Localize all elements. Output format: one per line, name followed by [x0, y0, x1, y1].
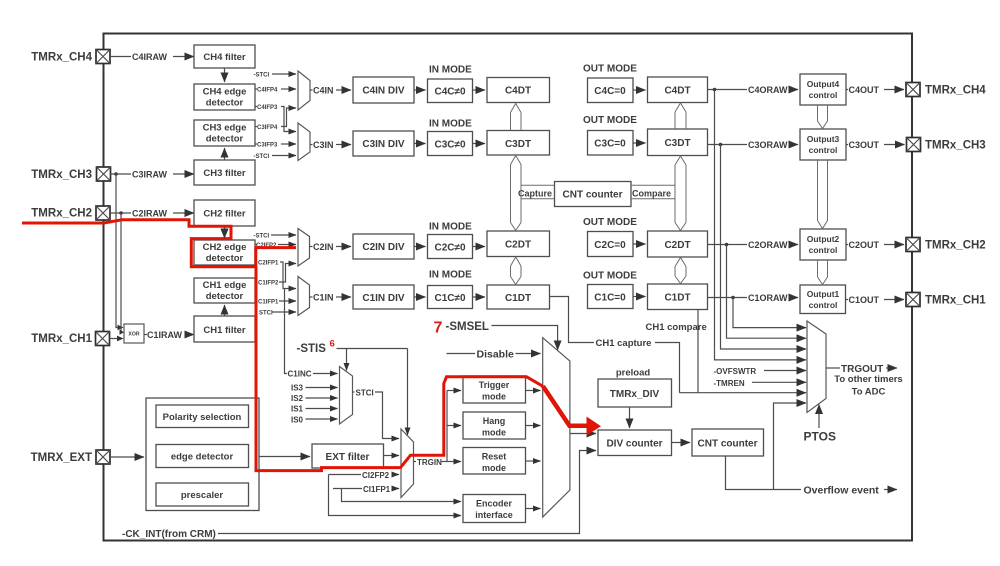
box CH4 edge detector: [194, 84, 255, 110]
box C4C=0: [588, 78, 634, 103]
svg-text:mode: mode: [482, 392, 506, 402]
junction C3ORAW: [719, 143, 723, 147]
svg-text:IN MODE: IN MODE: [429, 222, 472, 233]
wire C1IN to divider: [336, 296, 351, 298]
wire STIS: [337, 348, 408, 350]
wire C2C to C2DT: [473, 246, 486, 248]
svg-text:control: control: [809, 300, 838, 310]
pad TMRx_CH2 right: [906, 238, 920, 252]
junction CH2: [119, 211, 123, 215]
svg-text:control: control: [809, 145, 838, 155]
wire Trigger mode out: [526, 390, 541, 392]
svg-text:Overflow event: Overflow event: [804, 485, 880, 497]
svg-text:C1C=0: C1C=0: [594, 293, 626, 304]
wire C3ORAW: [708, 144, 748, 146]
wire Disable to mode mux: [516, 353, 541, 355]
wire C1ORAW: [708, 297, 748, 299]
svg-text:-STIS: -STIS: [297, 343, 327, 355]
svg-text:C1INC: C1INC: [288, 370, 312, 379]
wire C3OUT: [846, 144, 848, 146]
wire CI2FP2 to encoder: [329, 475, 462, 516]
svg-text:Compare: Compare: [632, 189, 671, 199]
mux mode select: [543, 338, 570, 517]
svg-text:To ADC: To ADC: [852, 387, 886, 398]
wire CK_INT: [218, 451, 596, 534]
mux PTOS trigger output: [807, 321, 826, 413]
box Trigger mode: [463, 376, 526, 403]
svg-text:C2ORAW: C2ORAW: [748, 240, 788, 250]
svg-text:C1IFP1: C1IFP1: [258, 300, 279, 306]
mux C4 input select: [298, 71, 310, 110]
box polarity container: [146, 398, 259, 511]
compare channel C2-C1: [675, 258, 686, 284]
wire C2OUT: [846, 244, 848, 246]
capture channel C3-C2: [511, 156, 522, 231]
output channel 3-2: [818, 160, 828, 229]
svg-text:CI2FP2: CI2FP2: [362, 471, 390, 480]
svg-text:IS3: IS3: [291, 384, 304, 393]
svg-text:STCI: STCI: [356, 389, 374, 398]
wire CI2FP2: [329, 474, 362, 476]
svg-text:detector: detector: [206, 291, 244, 302]
box C1C!=0: [428, 286, 473, 309]
wire CH3 to XOR: [116, 174, 118, 328]
svg-text:-TMREN: -TMREN: [714, 379, 745, 388]
wire C4IN DIV to C4C: [414, 89, 426, 91]
svg-text:C3IFP3: C3IFP3: [257, 143, 278, 149]
box C2DT in: [487, 231, 550, 257]
svg-text:7: 7: [434, 320, 443, 337]
wire C4IFP4 to C4 mux: [281, 88, 296, 90]
box CH3 filter: [194, 160, 255, 185]
svg-text:Encoder: Encoder: [476, 499, 513, 509]
svg-text:Output1: Output1: [807, 289, 840, 299]
wire CH1 compare: [697, 310, 699, 393]
riser C2ORAW to trigger mux: [727, 245, 807, 339]
svg-text:C2C≠0: C2C≠0: [434, 243, 465, 254]
wire C1IRAW: [144, 334, 147, 336]
svg-text:Disable: Disable: [477, 349, 515, 361]
box C2IN DIV: [353, 234, 414, 259]
svg-text:C4IRAW: C4IRAW: [132, 52, 168, 62]
wire C4ORAW: [708, 89, 748, 91]
svg-text:C3C=0: C3C=0: [594, 139, 626, 150]
svg-text:IS2: IS2: [291, 394, 304, 403]
svg-text:CH3 filter: CH3 filter: [203, 168, 246, 179]
wire TMRx_DIV to DIV counter: [629, 407, 631, 428]
box C3DT in: [487, 131, 550, 156]
wire CH1 pad to XOR: [110, 338, 118, 340]
svg-text:C3DT: C3DT: [505, 139, 531, 150]
svg-text:C1ORAW: C1ORAW: [748, 293, 788, 303]
svg-text:TMRx_CH1: TMRx_CH1: [31, 333, 92, 345]
svg-text:C2IFP1: C2IFP1: [258, 261, 279, 267]
wire C1C=0 to C1DT out: [633, 296, 646, 298]
svg-text:EXT filter: EXT filter: [326, 452, 370, 463]
label C3IFP3: [255, 143, 257, 145]
wire C2ORAW: [708, 244, 748, 246]
compare channel C4-C3: [675, 103, 686, 129]
riser C3ORAW to trigger mux: [721, 145, 807, 350]
box C1DT in: [487, 285, 550, 309]
svg-text:-STCI: -STCI: [254, 154, 270, 160]
svg-text:STCI: STCI: [259, 311, 273, 317]
wire C3IN to divider: [336, 144, 351, 146]
wire C3IRAW: [111, 173, 132, 175]
wire STCI to C1 mux: [272, 311, 296, 313]
wire C3IFP4 jog to C4 mux: [281, 108, 296, 127]
svg-text:CI1FP1: CI1FP1: [363, 485, 391, 494]
svg-text:TMRX_EXT: TMRX_EXT: [31, 452, 92, 464]
output channel 4-3: [818, 105, 828, 129]
svg-text:C4IFP4: C4IFP4: [257, 88, 278, 94]
wire TRGOUT: [826, 367, 840, 369]
riser C1ORAW to trigger mux: [733, 298, 806, 328]
wire C4IRAW: [110, 56, 131, 58]
wire C2IN DIV to C2C: [414, 246, 426, 248]
box C4C!=0: [428, 79, 473, 103]
svg-text:TMRx_CH1: TMRx_CH1: [925, 295, 986, 307]
box CH2 edge detector: [194, 240, 255, 265]
label C3IFP4: [255, 126, 257, 128]
junction C4ORAW: [713, 88, 717, 92]
wire CH1 capture: [550, 297, 595, 343]
wire overflow arrow: [884, 489, 897, 491]
capture channel C2-C1: [511, 257, 522, 285]
svg-text:IN MODE: IN MODE: [429, 119, 472, 130]
svg-text:C3IN: C3IN: [313, 140, 334, 150]
box CH3 edge detector: [194, 120, 255, 146]
wire Hang mode out: [526, 425, 541, 427]
red highlight input path: [22, 220, 296, 267]
svg-text:IN MODE: IN MODE: [429, 65, 472, 76]
svg-text:edge detector: edge detector: [171, 452, 234, 463]
compare channel C3-C2: [675, 156, 686, 231]
wire STCI to C4 mux: [272, 73, 296, 75]
wire STCI to C2 mux: [271, 234, 296, 236]
svg-text:OUT MODE: OUT MODE: [583, 271, 637, 282]
svg-text:IS0: IS0: [291, 416, 304, 425]
pad TMRx_CH4 left: [96, 50, 110, 64]
XOR box: [124, 324, 144, 343]
svg-text:C1DT: C1DT: [664, 293, 690, 304]
box Output3 control: [800, 129, 846, 160]
svg-text:TMRx_CH2: TMRx_CH2: [925, 240, 986, 252]
wire mode feeder vertical: [446, 391, 448, 462]
svg-text:detector: detector: [206, 98, 244, 109]
svg-text:C4DT: C4DT: [664, 86, 690, 97]
label TRGIN: [414, 461, 417, 463]
wire C3C=0 to C3DT out: [633, 142, 646, 144]
svg-text:OUT MODE: OUT MODE: [583, 217, 637, 228]
svg-text:Trigger: Trigger: [479, 380, 510, 390]
label C1IFP1: [255, 300, 257, 302]
pad TMRx_CH4 right: [906, 83, 920, 97]
wire CI1FP1: [333, 488, 362, 490]
svg-text:Polarity selection: Polarity selection: [163, 412, 242, 423]
compare duct: [631, 185, 675, 199]
wire C2IN to divider: [336, 246, 351, 248]
svg-text:C2DT: C2DT: [664, 240, 690, 251]
box CH1 edge detector: [194, 278, 255, 303]
wire capture compare to trigger mux: [680, 392, 807, 394]
wire CH1 filter to edge detector: [224, 305, 226, 316]
wire OVFSWTR to mux: [764, 370, 806, 372]
label C4IFP4: [255, 88, 257, 90]
svg-text:C4C≠0: C4C≠0: [434, 87, 465, 98]
svg-text:C4IFP3: C4IFP3: [257, 105, 278, 111]
svg-text:C2C=0: C2C=0: [594, 240, 626, 251]
wire C3C to C3DT: [473, 143, 486, 145]
svg-text:C2IN DIV: C2IN DIV: [362, 242, 405, 253]
svg-text:prescaler: prescaler: [181, 490, 224, 501]
wire EXT pad to polarity: [110, 456, 144, 458]
wire IS0: [306, 418, 338, 420]
wire CNT counter to overflow: [726, 456, 802, 490]
svg-text:To other timers: To other timers: [834, 374, 902, 385]
wire CH2 filter to edge detector: [224, 226, 226, 238]
svg-text:C1OUT: C1OUT: [849, 295, 880, 305]
box TMRx_DIV: [598, 379, 672, 407]
box prescaler ext: [156, 483, 249, 506]
red arrowhead: [587, 417, 602, 436]
mux C3 input select: [298, 123, 310, 161]
capture channel C4-C3: [511, 104, 522, 131]
svg-text:C4ORAW: C4ORAW: [748, 85, 788, 95]
svg-text:PTOS: PTOS: [804, 430, 836, 444]
svg-text:C3C≠0: C3C≠0: [434, 140, 465, 151]
svg-text:XOR: XOR: [128, 332, 139, 338]
svg-text:Output2: Output2: [807, 234, 840, 244]
wire STCI to C3 mux: [272, 155, 296, 157]
svg-text:Output3: Output3: [807, 134, 840, 144]
label C1IN: [310, 296, 313, 298]
wire CI1FP1 to encoder: [342, 489, 462, 502]
wire CH4 filter to edge detector: [224, 68, 226, 82]
svg-text:control: control: [809, 90, 838, 100]
svg-text:-STCI: -STCI: [254, 234, 270, 240]
wire C1IFP2 jog to C2 mux: [279, 264, 296, 283]
wire C1IN DIV to C1C: [414, 296, 426, 298]
wire C1OUT: [846, 299, 849, 301]
wire C4OUT: [846, 89, 848, 91]
svg-text:-SMSEL: -SMSEL: [446, 321, 489, 333]
wire TMREN to mux: [752, 381, 806, 383]
outer frame of timer block: [104, 34, 913, 541]
svg-text:C4DT: C4DT: [505, 86, 531, 97]
wire IS1: [306, 408, 338, 410]
wire polarity to EXT filter: [259, 456, 310, 458]
box C4IN DIV: [353, 77, 414, 103]
svg-text:IN MODE: IN MODE: [429, 270, 472, 281]
mux STCI select: [340, 367, 353, 425]
pad TMRx_CH2 left: [96, 206, 110, 220]
svg-text:CH1 capture: CH1 capture: [596, 338, 652, 349]
wire C4IFP3 jog to C3 mux: [281, 107, 296, 132]
svg-text:TMRx_CH3: TMRx_CH3: [31, 169, 92, 181]
box Output2 control: [800, 229, 846, 260]
box CH1 filter: [194, 316, 255, 342]
mux C1 input select: [298, 277, 310, 316]
wire C1C to C1DT: [473, 296, 486, 298]
label STCI out: [353, 391, 355, 393]
wire STIS to TRGIN mux: [407, 349, 409, 436]
box C2C=0: [588, 232, 634, 257]
svg-text:detector: detector: [206, 253, 244, 264]
svg-text:C2DT: C2DT: [505, 240, 531, 251]
wire C3IN DIV to C3C: [414, 143, 426, 145]
svg-text:DIV counter: DIV counter: [606, 439, 662, 450]
wire STIS branch to STCI mux: [346, 349, 348, 371]
svg-text:TRGIN: TRGIN: [417, 458, 442, 467]
wire CH2 to XOR: [120, 213, 122, 332]
box C1IN DIV: [353, 285, 414, 309]
label C2IFP1: [255, 261, 257, 263]
box C3C!=0: [428, 132, 473, 156]
svg-text:C1DT: C1DT: [505, 293, 531, 304]
svg-text:C3DT: C3DT: [664, 138, 690, 149]
wire STCI to TRGIN mux: [375, 392, 399, 439]
wire SMSEL to mode mux: [492, 326, 558, 351]
box DIV counter: [598, 430, 672, 456]
box C3DT out: [648, 129, 708, 156]
svg-text:TMRx_CH4: TMRx_CH4: [925, 85, 986, 97]
box Polarity selection: [156, 405, 249, 428]
svg-text:CH3 edge: CH3 edge: [203, 123, 247, 134]
wire C1IFP1 to C1 mux: [279, 300, 296, 302]
red highlight trigger path: [256, 267, 543, 471]
junction CH3: [114, 172, 118, 176]
output channel 2-1: [818, 260, 828, 285]
wire PTOS arrow: [818, 405, 820, 429]
label C4IFP3: [255, 106, 257, 108]
svg-text:CH2 filter: CH2 filter: [203, 209, 246, 220]
svg-text:6: 6: [330, 339, 335, 350]
label C4IN: [310, 89, 313, 91]
svg-text:C1IN: C1IN: [313, 293, 334, 303]
svg-text:C3IN DIV: C3IN DIV: [362, 139, 405, 150]
box C2C!=0: [428, 235, 473, 259]
box CNT counter top: [555, 182, 632, 207]
junction C2ORAW: [725, 243, 729, 247]
svg-text:CNT counter: CNT counter: [698, 439, 758, 450]
svg-text:TMRx_DIV: TMRx_DIV: [610, 389, 660, 400]
wire C3IFP3 to C3 mux: [281, 143, 296, 145]
wire C2IFP2 to C2 mux: [278, 244, 296, 246]
box Reset mode: [463, 448, 526, 475]
svg-text:Hang: Hang: [483, 416, 506, 426]
box C4DT out: [648, 77, 708, 103]
label Disable: [447, 353, 476, 355]
capture duct: [521, 185, 555, 199]
svg-text:OUT MODE: OUT MODE: [583, 64, 637, 75]
wire Encoder out: [526, 508, 541, 510]
svg-text:interface: interface: [475, 510, 513, 520]
riser C4ORAW to trigger mux: [715, 90, 807, 360]
svg-text:CNT counter: CNT counter: [563, 190, 623, 201]
box C3C=0: [588, 131, 634, 156]
svg-text:OUT MODE: OUT MODE: [583, 115, 637, 126]
box EXT filter: [312, 444, 384, 468]
svg-text:TMRx_CH3: TMRx_CH3: [925, 140, 986, 152]
svg-text:C1IN DIV: C1IN DIV: [362, 293, 405, 304]
svg-text:Reset: Reset: [482, 452, 507, 462]
wire C2IFP1 jog to C1 mux: [280, 262, 296, 289]
label C3IN: [310, 144, 313, 146]
box C2DT out: [648, 231, 708, 257]
box edge detector ext: [156, 445, 249, 468]
svg-text:preload: preload: [616, 368, 651, 379]
svg-text:mode: mode: [482, 463, 506, 473]
pad TMRx_CH1 right: [906, 293, 920, 307]
red highlight mux diagonal: [543, 386, 588, 426]
svg-text:detector: detector: [206, 134, 244, 145]
wire DIV to CNT counter: [672, 442, 691, 444]
wire feeder to Hang mode: [447, 425, 461, 427]
svg-text:C4C=0: C4C=0: [594, 86, 626, 97]
svg-text:CH1 filter: CH1 filter: [203, 325, 246, 336]
svg-text:C3ORAW: C3ORAW: [748, 140, 788, 150]
svg-text:C4OUT: C4OUT: [849, 85, 880, 95]
svg-text:C3OUT: C3OUT: [849, 140, 880, 150]
svg-text:mode: mode: [482, 428, 506, 438]
box C3IN DIV: [353, 131, 414, 156]
pad TMRx_CH1 left: [96, 332, 110, 346]
svg-text:-CK_INT(from CRM): -CK_INT(from CRM): [122, 529, 216, 540]
svg-text:C2OUT: C2OUT: [849, 240, 880, 250]
box Output1 control: [800, 285, 846, 314]
box CH4 filter: [194, 45, 255, 68]
svg-text:CH4 edge: CH4 edge: [203, 87, 247, 98]
svg-text:C2IN: C2IN: [313, 242, 334, 252]
wire C1INC riser: [285, 289, 288, 374]
wire C2IRAW: [110, 212, 131, 214]
wire overflow riser to mux: [774, 403, 807, 490]
svg-text:-STCI: -STCI: [254, 73, 270, 79]
wire CH3 filter to edge detector: [224, 148, 226, 160]
svg-text:C4IN DIV: C4IN DIV: [362, 86, 405, 97]
svg-text:C1IRAW: C1IRAW: [147, 330, 183, 340]
wire EXT filter to TRGIN mux: [384, 455, 400, 457]
svg-text:control: control: [809, 245, 838, 255]
label C2IFP2: [255, 244, 257, 246]
svg-text:CH1 edge: CH1 edge: [203, 280, 247, 291]
svg-text:C3IFP4: C3IFP4: [257, 125, 278, 131]
wire C2C=0 to C2DT out: [633, 243, 646, 245]
svg-text:TMRx_CH2: TMRx_CH2: [31, 208, 92, 220]
wire C1INC to STCI mux: [313, 373, 338, 375]
wire C4C=0 to C4DT out: [633, 89, 646, 91]
svg-text:C2IRAW: C2IRAW: [132, 209, 168, 219]
svg-text:C1IFP2: C1IFP2: [258, 281, 279, 287]
wire mode mux to DIV counter: [570, 433, 596, 435]
box C1C=0: [588, 285, 634, 309]
box CNT counter bottom: [692, 429, 764, 456]
wire IS2: [306, 397, 338, 399]
svg-text:CH4 filter: CH4 filter: [203, 52, 246, 63]
box C4DT in: [487, 78, 550, 103]
label C1IFP2: [255, 281, 257, 283]
svg-text:CH2 edge: CH2 edge: [203, 242, 247, 253]
pad TMRX_EXT: [96, 450, 110, 464]
wire feeder to Reset mode: [447, 461, 461, 463]
wire feeder to Trigger mode: [447, 390, 461, 392]
svg-text:C1C≠0: C1C≠0: [434, 293, 465, 304]
mux TRGIN select: [401, 429, 414, 498]
svg-text:IS1: IS1: [291, 405, 304, 414]
box Output4 control: [800, 74, 846, 105]
box CH2 filter: [194, 200, 255, 226]
